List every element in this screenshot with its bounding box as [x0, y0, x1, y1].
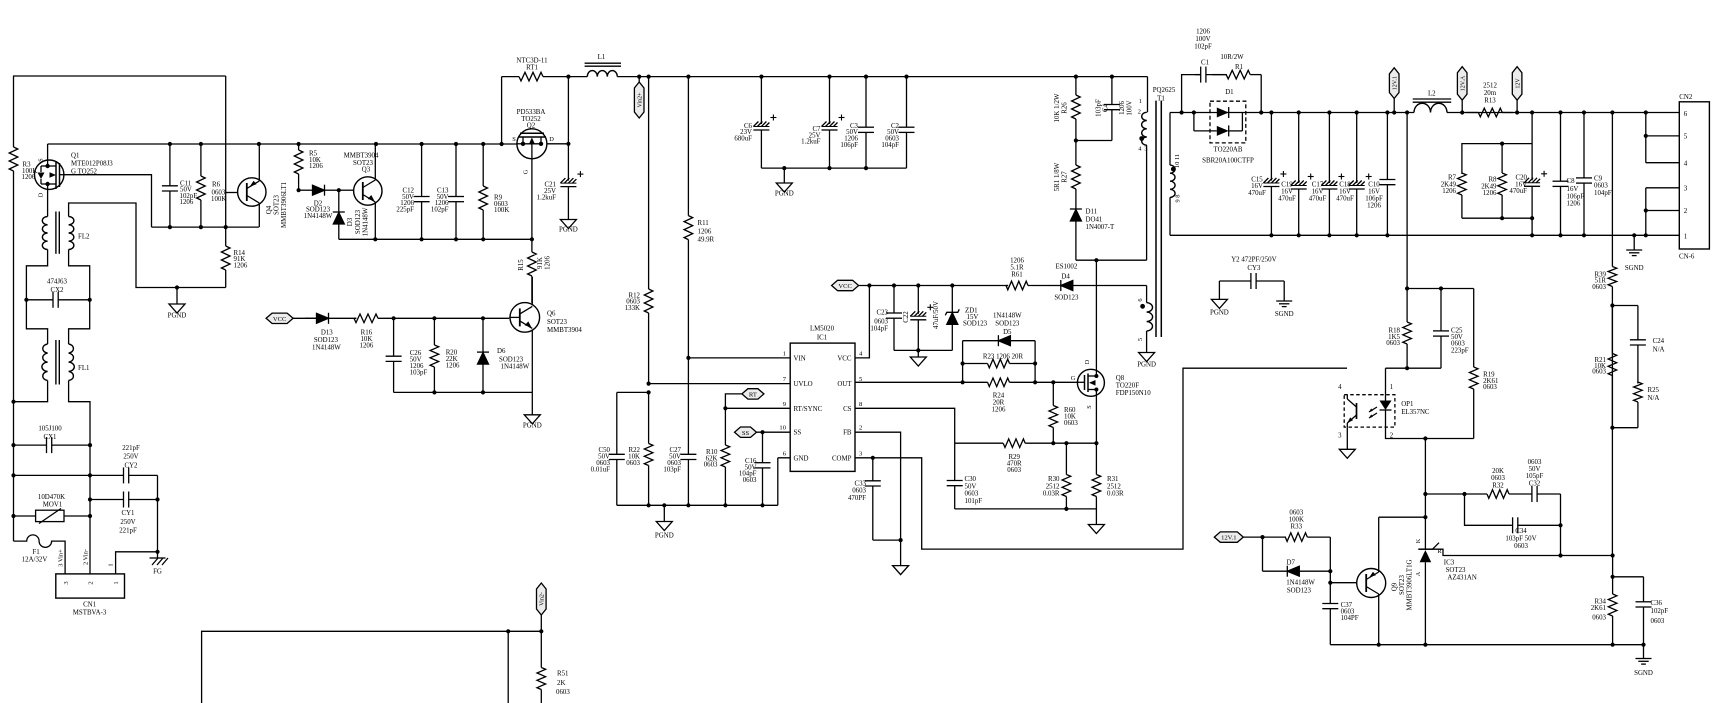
svg-text:T1: T1 — [1157, 96, 1165, 103]
svg-text:10K 1/2W: 10K 1/2W — [1054, 93, 1061, 122]
capacitor CX2 — [26, 292, 89, 308]
junction — [1558, 233, 1562, 237]
svg-text:0.03R: 0.03R — [1043, 491, 1060, 498]
svg-text:16V: 16V — [1281, 189, 1293, 196]
svg-text:UVLO: UVLO — [794, 381, 813, 388]
label T1 — [1153, 87, 1176, 103]
label R32 — [1491, 468, 1505, 490]
junction — [155, 550, 159, 554]
junction — [566, 75, 570, 79]
svg-text:1.2kuF: 1.2kuF — [801, 139, 821, 146]
svg-text:4: 4 — [1684, 159, 1688, 167]
svg-text:2 Vin-: 2 Vin- — [83, 549, 90, 565]
svg-text:RT1: RT1 — [526, 65, 538, 72]
junction — [1269, 233, 1273, 237]
junction — [1327, 110, 1331, 114]
junction — [337, 188, 341, 192]
label R22 — [626, 447, 640, 467]
junction — [916, 348, 920, 352]
label D11 — [1086, 209, 1115, 232]
transformer T1 primary winding — [1142, 112, 1147, 145]
wire divider top — [1612, 305, 1638, 307]
svg-text:1206: 1206 — [1196, 29, 1210, 36]
wire 12V rail right part — [1447, 112, 1679, 114]
wire Q2 drain node to L1 — [568, 76, 587, 78]
svg-text:R27: R27 — [1062, 171, 1069, 183]
resistor R23 — [963, 359, 1036, 368]
capacitor CY1 — [90, 492, 158, 508]
svg-text:1: 1 — [783, 350, 786, 357]
junction — [392, 316, 396, 320]
junction — [760, 430, 764, 434]
wire divider bottom — [1612, 427, 1638, 429]
wire R32 branch — [1425, 494, 1511, 525]
wire Q2 drain to L1 node — [567, 77, 569, 144]
label R10 — [704, 449, 718, 469]
FL2 left winding — [42, 217, 47, 250]
svg-text:1: 1 — [108, 563, 115, 566]
svg-text:MMBT3904: MMBT3904 — [344, 153, 379, 160]
svg-text:102pF: 102pF — [1651, 608, 1669, 615]
wire D7 left leg — [1262, 537, 1264, 571]
label CN1 pin names — [58, 549, 115, 567]
svg-text:K: K — [1415, 538, 1422, 543]
label R9 — [494, 194, 509, 214]
junction — [506, 629, 510, 633]
svg-text:SOT23: SOT23 — [547, 319, 567, 326]
svg-text:PGND: PGND — [655, 533, 674, 540]
svg-text:1N4148W: 1N4148W — [993, 313, 1022, 320]
label CY2 — [122, 445, 140, 469]
svg-text:SS: SS — [742, 430, 750, 437]
svg-text:20K: 20K — [1492, 468, 1504, 475]
FL1 left winding — [42, 344, 48, 381]
svg-text:2512: 2512 — [1483, 82, 1497, 89]
junction — [864, 166, 868, 170]
svg-text:221pF: 221pF — [119, 528, 137, 535]
junction — [1439, 286, 1443, 290]
svg-text:L2: L2 — [1428, 91, 1436, 98]
junction — [1259, 110, 1263, 114]
IC U1 LM5020 box — [779, 326, 863, 472]
svg-text:0603: 0603 — [704, 462, 718, 469]
junction — [637, 75, 641, 79]
svg-text:100K: 100K — [494, 207, 509, 214]
wire VCC rail — [859, 285, 1009, 287]
capacitor C1 — [1195, 67, 1227, 83]
svg-text:103pF 50V: 103pF 50V — [1505, 536, 1536, 543]
label F1 — [22, 549, 48, 564]
svg-text:3: 3 — [1338, 432, 1342, 439]
svg-text:50V: 50V — [965, 483, 977, 490]
svg-text:1206: 1206 — [1119, 101, 1126, 115]
junction — [1051, 380, 1055, 384]
transistor Q1 (P-MOSFET MTE012P08J3) — [35, 160, 64, 189]
svg-text:PGND: PGND — [775, 191, 794, 198]
wire T1 primary bottom lead — [1146, 145, 1148, 260]
svg-text:D7: D7 — [1286, 560, 1295, 567]
capacitor C6 (electrolytic) — [753, 77, 776, 169]
svg-text:FL2: FL2 — [78, 234, 90, 241]
label FL1 — [78, 365, 90, 372]
resistor R11 — [684, 77, 693, 358]
svg-text:104pF: 104pF — [881, 142, 899, 149]
svg-text:Y2 472PF/250V: Y2 472PF/250V — [1231, 256, 1276, 263]
label C37 — [1341, 602, 1359, 622]
junction — [723, 406, 727, 410]
svg-text:1206: 1206 — [992, 406, 1006, 413]
svg-text:PQ2625: PQ2625 — [1153, 87, 1176, 94]
wire OP1 pin1 lead — [1385, 368, 1387, 395]
label CY3 — [1231, 256, 1276, 272]
junction — [1377, 643, 1381, 647]
label CX1 — [38, 425, 62, 441]
zener diode ZD1 (15V) — [945, 286, 959, 351]
wire flag stem — [1461, 100, 1463, 112]
wire IC ground rail — [617, 504, 778, 506]
svg-text:1206: 1206 — [1567, 201, 1581, 208]
wire CN2 pin3 stub — [1646, 188, 1680, 236]
label C11 — [180, 180, 198, 206]
svg-text:SOD123: SOD123 — [1054, 295, 1079, 302]
junction — [530, 237, 534, 241]
junction — [297, 142, 301, 146]
svg-text:VCC: VCC — [273, 316, 287, 323]
svg-text:10D470K: 10D470K — [38, 494, 65, 501]
svg-text:PD533BA: PD533BA — [517, 109, 546, 116]
wire PGND stem Q6 — [531, 392, 533, 414]
resistor R16 — [354, 314, 509, 323]
power symbol PGND under T1 pin5 — [1137, 353, 1156, 369]
svg-text:Q6: Q6 — [547, 310, 556, 317]
wire Q9 collector up — [1379, 517, 1426, 572]
svg-text:PGND: PGND — [559, 227, 578, 234]
svg-text:16V: 16V — [1339, 189, 1351, 196]
junction — [539, 629, 543, 633]
junction — [1558, 110, 1562, 114]
diode D1 (SBR20A100CTFP dual) — [1194, 101, 1246, 143]
wire SGND stem — [1643, 645, 1645, 659]
svg-text:474J63: 474J63 — [47, 278, 67, 285]
svg-text:106pF: 106pF — [1567, 193, 1585, 200]
svg-text:NTC3D-11: NTC3D-11 — [516, 57, 548, 64]
svg-text:0603: 0603 — [1386, 340, 1400, 347]
transistor Q4 (MMBT3906) — [238, 178, 266, 206]
junction — [1405, 110, 1409, 114]
svg-text:0.03R: 0.03R — [1107, 491, 1124, 498]
svg-text:5R1 1/8W: 5R1 1/8W — [1054, 162, 1061, 191]
junction — [904, 75, 908, 79]
svg-text:G: G — [523, 169, 530, 174]
label C3 — [840, 123, 858, 149]
net flag 12V.A — [1457, 67, 1467, 101]
svg-text:SGND: SGND — [1625, 265, 1644, 272]
svg-text:1206: 1206 — [180, 199, 194, 206]
label T1 pins 6 5 and polarity dot — [1137, 298, 1145, 341]
svg-text:R11: R11 — [698, 220, 710, 227]
svg-text:16V: 16V — [1368, 189, 1380, 196]
label C34 — [1505, 528, 1536, 550]
wire VCC pin4 — [855, 286, 869, 358]
wire PGND stem — [176, 288, 178, 305]
capacitor C34 — [1511, 517, 1560, 533]
svg-text:C10: C10 — [1368, 182, 1380, 189]
svg-text:2512: 2512 — [1046, 483, 1060, 490]
wire flag stem — [1516, 100, 1518, 112]
svg-text:105J100: 105J100 — [38, 425, 62, 432]
label R31 — [1107, 476, 1124, 497]
capacitor C17 (electrolytic) — [1321, 113, 1344, 236]
svg-text:SS: SS — [794, 430, 802, 437]
diode D7 (1N4148W) — [1263, 566, 1331, 577]
wire R18 top from 12V — [1406, 113, 1408, 289]
svg-text:1206: 1206 — [360, 342, 374, 349]
wire C27 net — [687, 358, 689, 454]
svg-text:12V.1: 12V.1 — [1393, 76, 1399, 90]
label R11 — [698, 220, 715, 243]
svg-text:C4: C4 — [1103, 103, 1110, 112]
connector CN2 — [1679, 94, 1709, 261]
diode D6 (1N4148W) — [477, 318, 489, 392]
svg-text:Q3: Q3 — [362, 167, 371, 174]
label FL2 — [78, 234, 90, 241]
label R21 — [1592, 357, 1606, 376]
label D13 — [312, 329, 341, 351]
wire Q9 base node — [1329, 571, 1331, 603]
label R39 — [1592, 271, 1606, 291]
label R27 — [1054, 162, 1069, 191]
label C1 R1 — [1194, 29, 1244, 71]
wire R7 R8 C20 top — [1462, 113, 1532, 181]
svg-text:C34: C34 — [1515, 528, 1527, 535]
wire Q1 source from rail — [47, 144, 49, 160]
junction — [199, 142, 203, 146]
svg-text:MMBT3906LT1: MMBT3906LT1 — [281, 181, 288, 228]
label C32 — [1526, 459, 1544, 488]
label R51 — [556, 671, 570, 697]
svg-text:SGND: SGND — [1275, 311, 1294, 318]
svg-text:0603: 0603 — [556, 689, 570, 696]
wire GND pin6 — [778, 458, 790, 506]
svg-text:SOT23: SOT23 — [1399, 574, 1406, 594]
label L2 — [1428, 91, 1436, 98]
wire T1 secondary top lead — [1169, 113, 1171, 166]
junction — [432, 316, 436, 320]
junction — [1094, 441, 1098, 445]
junction — [1530, 216, 1534, 220]
label R60 — [1064, 407, 1078, 427]
wire IC3 cathode column — [1424, 439, 1426, 550]
junction — [1610, 303, 1614, 307]
label R13 — [1483, 82, 1497, 104]
label Q8 — [1071, 359, 1152, 408]
label D2 — [304, 200, 333, 220]
capacitor C24 — [1630, 306, 1646, 384]
capacitor C13 — [448, 144, 464, 239]
capacitor C37 — [1322, 604, 1338, 645]
svg-text:S: S — [38, 158, 45, 162]
svg-text:C32: C32 — [1529, 481, 1541, 488]
svg-text:R61: R61 — [1011, 272, 1023, 279]
svg-text:CY3: CY3 — [1247, 265, 1261, 272]
resistor R7 — [1458, 173, 1467, 218]
junction — [199, 225, 203, 229]
resistor R22 — [644, 392, 653, 505]
svg-text:1N4148W: 1N4148W — [304, 213, 333, 220]
svg-text:5: 5 — [1684, 133, 1688, 141]
svg-text:100K: 100K — [1289, 517, 1304, 524]
svg-text:C33: C33 — [855, 480, 867, 487]
svg-text:0603: 0603 — [1491, 475, 1505, 482]
junction — [1644, 134, 1648, 138]
label Q6 — [547, 310, 582, 334]
label R12 — [625, 292, 641, 312]
wire COMP pin3 — [855, 368, 1347, 549]
svg-text:16V: 16V — [1312, 189, 1324, 196]
power symbol SGND output — [1625, 250, 1644, 272]
svg-text:0603: 0603 — [1528, 459, 1542, 466]
label C20 — [1509, 175, 1527, 196]
junction — [1297, 233, 1301, 237]
svg-text:1206: 1206 — [1483, 190, 1497, 197]
capacitor C15 (electrolytic) — [1263, 113, 1286, 236]
diode D13 (1N4148W) — [305, 313, 356, 324]
svg-text:0603: 0603 — [743, 477, 757, 484]
wire CY3 left to PGND — [1218, 281, 1220, 299]
svg-text:106pF: 106pF — [840, 142, 858, 149]
transistor Q2 (PD533BA) — [517, 129, 569, 159]
svg-text:250V: 250V — [120, 519, 135, 526]
svg-text:20m: 20m — [1484, 90, 1497, 97]
svg-text:MMBT3906LT1G: MMBT3906LT1G — [1407, 559, 1414, 610]
wire vertical to gate rail — [225, 76, 227, 227]
svg-text:N/A: N/A — [1648, 395, 1660, 402]
FL2 right winding — [69, 217, 74, 250]
svg-text:1N4007-T: 1N4007-T — [1086, 224, 1115, 231]
svg-text:0603: 0603 — [626, 460, 640, 467]
svg-text:C30: C30 — [965, 476, 977, 483]
svg-text:2512: 2512 — [1107, 483, 1121, 490]
wire secondary control ground rail — [1330, 644, 1643, 646]
label C10 — [1365, 182, 1383, 210]
svg-text:C17: C17 — [1312, 182, 1324, 189]
resistor R31 — [1092, 443, 1101, 509]
svg-text:CY2: CY2 — [124, 462, 138, 469]
junction — [1192, 110, 1196, 114]
wire Q1 gate — [64, 175, 152, 227]
junction — [723, 503, 727, 507]
svg-text:1N4148W: 1N4148W — [501, 363, 530, 370]
svg-text:0603: 0603 — [1007, 467, 1021, 474]
ground symbol FB — [893, 566, 909, 575]
junction — [374, 142, 378, 146]
svg-text:FDP150N10: FDP150N10 — [1116, 390, 1151, 397]
ground symbol OP1 — [1339, 449, 1355, 458]
label R24 — [992, 392, 1006, 413]
svg-text:C18: C18 — [1339, 182, 1351, 189]
label C8 — [1567, 178, 1585, 208]
svg-text:2: 2 — [88, 581, 95, 584]
wire PGND stem VCC caps — [917, 350, 919, 357]
junction — [1074, 75, 1078, 79]
svg-text:100V: 100V — [1127, 100, 1134, 115]
wire 12V rail left part — [1170, 112, 1414, 114]
label C17 — [1309, 182, 1327, 203]
svg-text:12A/32V: 12A/32V — [22, 557, 48, 564]
junction — [1423, 492, 1427, 496]
svg-text:OUT: OUT — [837, 381, 852, 388]
junction — [1405, 286, 1409, 290]
svg-text:221pF: 221pF — [122, 445, 140, 452]
svg-text:VIN: VIN — [794, 355, 806, 362]
ground symbol sense — [1088, 525, 1104, 534]
inductor L2 — [1413, 99, 1452, 102]
capacitor C12 — [414, 144, 430, 239]
net flag 12V.1 — [1389, 68, 1399, 99]
wire OP1 anode rail — [1386, 367, 1442, 369]
junction — [1328, 569, 1332, 573]
wire VIN pin1 — [688, 357, 790, 359]
svg-text:47uF/50V: 47uF/50V — [933, 301, 940, 329]
svg-text:C19: C19 — [1281, 182, 1293, 189]
svg-text:470uF: 470uF — [1248, 190, 1266, 197]
resistor R39 — [1608, 264, 1617, 306]
junction — [1611, 553, 1615, 557]
label C30 — [965, 476, 983, 505]
svg-text:D5: D5 — [1003, 329, 1012, 336]
capacitor C26 — [386, 318, 402, 392]
svg-text:C22: C22 — [903, 311, 910, 323]
svg-text:1206: 1206 — [1442, 188, 1456, 195]
label OP1 — [1338, 384, 1430, 440]
label R7 — [1441, 175, 1457, 196]
power symbol PGND Q6 — [523, 415, 542, 430]
wire Q2 gate — [531, 159, 533, 240]
label D5 — [993, 313, 1022, 337]
junction — [827, 166, 831, 170]
svg-text:PGND: PGND — [1210, 310, 1229, 317]
label C21 — [537, 181, 557, 201]
label L1 — [598, 54, 606, 61]
svg-text:50V: 50V — [1529, 466, 1541, 473]
svg-text:2: 2 — [1684, 207, 1688, 215]
svg-text:R51: R51 — [557, 671, 569, 678]
wire gate rail — [152, 226, 259, 228]
junction — [647, 382, 651, 386]
junction — [1392, 110, 1396, 114]
wire VCC cap ground — [894, 349, 952, 351]
varistor MOV1 — [14, 509, 91, 524]
junction — [759, 75, 763, 79]
transformer T1 aux winding — [1147, 303, 1153, 331]
svg-text:0603: 0603 — [1592, 614, 1606, 621]
svg-text:C36: C36 — [1651, 600, 1663, 607]
svg-text:IC3: IC3 — [1444, 559, 1455, 566]
label D6 — [497, 348, 530, 371]
resistor R14 — [221, 227, 230, 287]
svg-text:0.01uF: 0.01uF — [591, 466, 611, 473]
capacitor C33 — [865, 458, 881, 540]
label R19 — [1483, 372, 1499, 391]
svg-text:CX2: CX2 — [50, 287, 64, 294]
wire OP1 pin3 to ground — [1346, 427, 1348, 449]
svg-text:12V: 12V — [1516, 78, 1522, 89]
svg-text:C8: C8 — [1567, 178, 1576, 185]
junction — [1385, 233, 1389, 237]
junction — [647, 75, 651, 79]
junction — [1033, 361, 1037, 365]
junction — [1644, 208, 1648, 212]
